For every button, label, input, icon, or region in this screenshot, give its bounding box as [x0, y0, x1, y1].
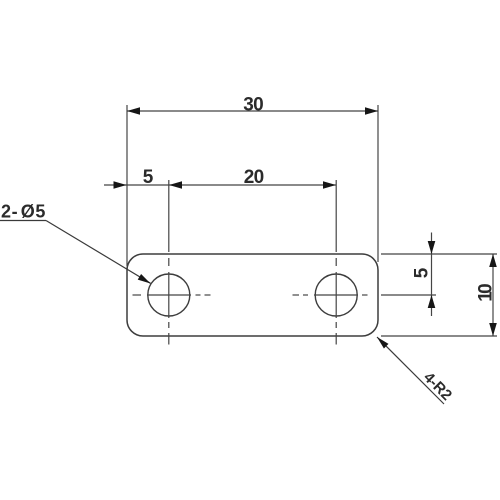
- leader 4-R2 line: [377, 337, 444, 404]
- svg-text:5: 5: [143, 167, 154, 188]
- leader 4-R2 value label: [420, 369, 455, 404]
- leader label 2-dia5 text: [1, 202, 46, 222]
- dimension 5 vertical arrow bottom (pointing up at centerline): [428, 295, 436, 308]
- hole H1 horizontal centerline: [133, 294, 211, 296]
- plate outline (30x10 rounded plate): [127, 254, 378, 336]
- svg-text:20: 20: [244, 167, 265, 188]
- dimension 20 arrow right (tip at hole2 centerline): [323, 181, 336, 189]
- extension line hole centerline (right side): [381, 294, 436, 296]
- dimension 5 vertical arrow top (pointing down at top edge): [428, 241, 436, 254]
- dimension 20 arrow left (tip at hole1 centerline): [169, 181, 182, 189]
- extension line plate top edge (right side): [381, 253, 497, 255]
- dimension 30 extension line right: [377, 105, 379, 262]
- dimension 5 vertical value label: [412, 267, 433, 278]
- dimension 10 line: [492, 254, 494, 336]
- extension line plate bottom edge (right side): [381, 335, 497, 337]
- leader 2-dia5 arrowhead (tip at hole1 edge): [138, 274, 151, 284]
- dimension 30 arrow right: [365, 107, 378, 115]
- dimension 5 vertical line (right): [431, 233, 433, 317]
- dimension 10 arrow top (pointing up): [489, 254, 497, 267]
- dimension 5/20 line: [104, 184, 336, 186]
- leader 4-R2 arrowhead (tip at plate corner): [377, 337, 389, 349]
- extension line hole2 centerline to dimension: [335, 180, 337, 252]
- hole H2 vertical centerline: [335, 258, 337, 345]
- dimension 30 extension line left: [126, 105, 128, 266]
- dimension 20 value label: [244, 167, 265, 188]
- svg-text:4-R2: 4-R2: [420, 369, 455, 404]
- dimension 10 value label: [476, 283, 497, 302]
- dimension 5 arrow (outside, pointing right at x=127): [114, 181, 127, 189]
- leader 2-dia5 underline: [0, 220, 46, 222]
- svg-text:2-Ø5: 2-Ø5: [1, 202, 46, 222]
- leader 2-dia5 line: [46, 221, 151, 284]
- hole H2 horizontal centerline: [293, 294, 368, 296]
- svg-text:30: 30: [243, 95, 264, 116]
- dimension 30 arrow left: [127, 107, 140, 115]
- dimension 30 value label: [243, 95, 264, 116]
- dimension 5 value label: [143, 167, 154, 188]
- extension line hole1 centerline to dimension: [168, 180, 170, 252]
- hole H2 (right, dia 5): [315, 274, 357, 316]
- dimension 30 line: [127, 110, 378, 112]
- hole H1 (left, dia 5): [148, 274, 190, 316]
- dimension 10 arrow bottom (pointing down): [489, 323, 497, 336]
- svg-text:10: 10: [476, 283, 497, 302]
- hole H1 vertical centerline: [168, 258, 170, 345]
- svg-text:5: 5: [412, 267, 433, 278]
